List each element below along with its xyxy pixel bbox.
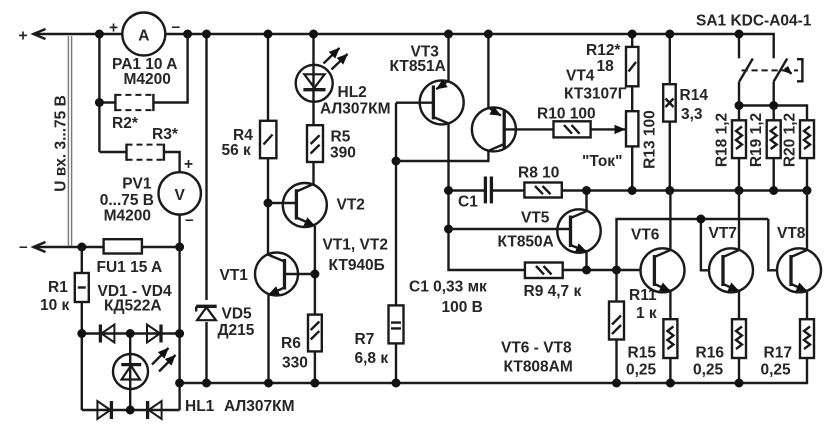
svg-text:"Ток": "Ток" [582,153,622,170]
junction: bus at R11 [612,379,621,388]
resistor R3* (dashed, optional multiplier) [127,144,164,161]
svg-text:+: + [184,156,193,173]
resistor R10 [554,121,591,137]
svg-text:HL2: HL2 [338,84,367,101]
svg-text:M4200: M4200 [104,208,151,225]
svg-text:R5: R5 [331,129,351,146]
svg-text:330: 330 [282,355,308,372]
wire: VT2 emitter down to R6 (VT1 base node) [314,226,316,315]
net: C1/R8 output sense line (y=190.5) [449,189,808,191]
svg-text:КТ940Б: КТ940Б [329,257,385,274]
diode VD1 (top-left, points left) [100,325,114,343]
wire: left column of bridge [81,302,83,410]
double line: input span mark [68,36,71,246]
junction: rail at SA1 pole 1 [735,30,744,39]
wire: R4 / VT1 column from rail [267,34,269,255]
svg-text:V: V [175,187,186,204]
wire: R14 column from rail [669,34,671,191]
wire: R7 column (VT3 base node down to bus) [395,103,397,383]
resistor R6 [308,315,322,352]
junction: bus at R15 [666,379,675,388]
junction: bus at VD5 [202,379,211,388]
junction: VT1 base / VT2 emitter [310,270,319,279]
svg-text:–: – [185,212,194,229]
junction: VT3 base / VT4 collector / R7 node [392,157,401,166]
wire: VT1 emitter to bus [267,295,269,383]
junction: VT5 collector on sense line [582,186,591,195]
voltmeter PV1 [159,156,201,229]
svg-text:АЛ307КМ: АЛ307КМ [320,101,391,118]
junction: bus at R16 [735,379,744,388]
wire: R2* right lead up to rail [153,34,187,103]
wire: HL2 / R5 column from rail [312,34,314,125]
junction: VT5 base tap [444,225,453,234]
resistor R18 [732,120,746,190]
resistor R8 [524,183,561,198]
wire: R6 to bus [314,351,316,383]
diode VD3 (bottom-left, points right) [97,401,111,419]
svg-text:КТ808АМ: КТ808АМ [504,359,573,376]
svg-text:100 В: 100 В [442,299,483,316]
svg-text:VD5: VD5 [222,306,253,323]
wire: VT4 emitter from rail [487,34,489,108]
svg-text:0...75 В: 0...75 В [100,192,154,209]
wire: bridge centre column through HL1 [129,334,131,411]
svg-text:R8 10: R8 10 [518,165,559,182]
resistor R11 [609,270,624,383]
svg-text:VT6 - VT8: VT6 - VT8 [501,340,572,357]
input terminal arrow (+) [34,29,46,39]
junction: C1 tap on VT3 collector column [444,186,453,195]
wire: lower input rail [33,246,180,248]
wire: VT5 collector up to sense line [585,191,587,212]
svg-text:VT2: VT2 [337,197,365,214]
svg-text:КТ3107Г: КТ3107Г [564,86,627,103]
switch SA1 (2 ganged poles) [739,34,802,106]
junction: R14 bottom / VT6 collector [665,186,674,195]
svg-text:R3*: R3* [152,126,179,143]
svg-text:PV1: PV1 [122,176,152,193]
svg-text:–: – [172,19,181,36]
svg-text:R16: R16 [696,345,725,362]
resistor R15 [663,291,677,383]
junction: rail at PA1+ branch [95,30,104,39]
resistor R14 [663,84,676,121]
resistor R7 [389,305,404,343]
junction: base node / R11 top [612,266,621,275]
svg-text:КТ850А: КТ850А [498,234,554,251]
diode VD4 (bottom-right, points left) [148,401,162,419]
svg-text:R20 1,2: R20 1,2 [782,113,799,167]
resistor R19 [767,120,781,190]
resistor R9 [525,263,563,279]
junction: rail at R14 [665,30,674,39]
svg-text:R1: R1 [48,279,68,296]
svg-text:18: 18 [597,58,615,75]
junction: R18 bottom / VT7 collector [735,186,744,195]
junction: R13 bottom on sense line [628,186,637,195]
wire: right column of bridge (lower rail down to bridge) [178,247,180,410]
transistor VT3 [396,80,464,124]
svg-text:+: + [109,20,118,37]
svg-text:R19 1,2: R19 1,2 [748,113,765,167]
wire: bridge bottom row [82,409,180,411]
wire: R12/R13 column from rail [631,34,633,191]
svg-text:6,8 к: 6,8 к [355,350,389,367]
diode VD2 (top-right, points right) [147,325,161,343]
svg-text:АЛ307КМ: АЛ307КМ [224,398,295,415]
wire: PV1 minus lead down to lower rail [178,215,180,247]
wire: R10 to R13 wiper with arrow [591,128,625,130]
wire: bridge top row [82,332,180,334]
wire: bottom bus (output minus) [180,358,807,383]
resistor R1 [75,247,89,302]
svg-text:VT7: VT7 [709,225,737,242]
junction: R20 bottom / VT8 collector [803,186,812,195]
wire: VT7 collector riser [738,191,740,251]
svg-text:R15: R15 [628,345,657,362]
net: driver output / VT6-VT8 base distribution [563,219,792,270]
resistor R17 [800,291,814,358]
svg-text:1 к: 1 к [636,305,657,322]
resistor R20 [800,120,814,190]
junction: rail at VD5 column [202,30,211,39]
svg-text:390: 390 [330,145,356,162]
junction: R2* right at rail [183,30,192,39]
wire: top positive rail [33,34,774,58]
junction: R1 top on lower rail [77,243,86,252]
wire: VT3 collector column down through C1 node to R9 row [449,124,525,271]
junction: VT7 base riser [696,215,705,224]
svg-text:VT8: VT8 [777,225,806,242]
resistor R16 [732,291,746,383]
svg-text:VT1: VT1 [220,267,249,284]
svg-text:SA1 KDC-A04-1: SA1 KDC-A04-1 [696,13,812,30]
svg-text:HL1: HL1 [185,398,215,415]
variable resistor R13 [626,111,638,146]
wire: VT4 collector to VT3 base node [396,151,488,161]
LED HL2 [296,48,348,102]
svg-text:VT5: VT5 [521,210,550,227]
wire: PA1 plus branch down (x=99.4) with taps to R2* and R3* [99,34,126,152]
transistor VT5 [449,209,601,252]
svg-text:0,25: 0,25 [693,362,724,379]
wire: VT6 collector riser [669,191,671,251]
resistor R2* (dashed, optional shunt) [115,94,153,111]
svg-text:C1: C1 [458,194,478,211]
svg-text:R2*: R2* [112,115,139,132]
transistor VT2 [268,183,327,227]
transistor VT1 [255,253,315,296]
input terminal arrow (-) [34,242,46,252]
wire: R3* right lead down to PV1 [164,152,180,172]
junction: SA1 pole1 / R18 [735,101,744,110]
svg-text:R10 100: R10 100 [537,106,596,123]
junction: bridge top-centre [126,329,135,338]
svg-text:3,3: 3,3 [681,106,703,123]
fuse FU1 [104,239,142,253]
svg-text:R13 100: R13 100 [642,110,659,169]
svg-text:R14: R14 [680,87,709,104]
svg-text:U вх. 3...75 В: U вх. 3...75 В [53,95,70,192]
junction: bus at bridge column [175,379,184,388]
capacitor C1 [485,177,491,204]
LED HL1 [113,348,176,389]
svg-text:R12*: R12* [586,42,621,59]
svg-text:R9 4,7 к: R9 4,7 к [524,283,582,300]
junction: bridge top-left [77,329,86,338]
svg-text:VT4: VT4 [566,68,595,85]
junction: PV1/lower-rail/right column [175,243,184,252]
svg-text:0,25: 0,25 [761,362,792,379]
svg-text:A: A [138,28,149,45]
resistor R12* [626,47,638,86]
wire: R5 to VT2 collector [312,162,314,184]
svg-text:VT6: VT6 [631,227,660,244]
transistor VT4 [472,107,554,151]
svg-text:КТ851А: КТ851А [390,58,446,75]
svg-text:R18 1,2: R18 1,2 [714,113,731,167]
junction: bus at R7 [392,379,401,388]
svg-text:+: + [19,28,28,45]
junction: R19 bottom on sense line [769,186,778,195]
wire: VT8 collector riser [806,191,808,251]
junction: rail at HL2 column [309,30,318,39]
transistor VT7 [709,248,753,292]
junction: bridge top-right [175,329,184,338]
svg-text:0,25: 0,25 [626,362,657,379]
junction: rail at VT4 [484,30,493,39]
svg-text:56 к: 56 к [222,142,252,159]
svg-text:VT1, VT2: VT1, VT2 [323,237,388,254]
svg-text:R17: R17 [764,345,792,362]
wire: VT3 emitter from rail [447,34,449,82]
svg-text:M4200: M4200 [124,71,171,88]
junction: bus at VT1 emitter [264,379,273,388]
junction: bus at R6 [310,379,319,388]
ammeter PA1 [109,13,181,56]
junction: VT2 base tap on R4 column [264,199,273,208]
svg-text:С1 0,33 мк: С1 0,33 мк [409,279,487,296]
junction: SA1 pole2 / R19 [769,101,778,110]
junction: bridge bottom-centre [126,406,135,415]
svg-text:FU1 15 A: FU1 15 A [97,259,163,276]
transistor VT8 [777,248,821,292]
junction: rail at R12 [628,30,637,39]
junction: R2* left tap [95,98,104,107]
resistor R5 [307,125,323,162]
wire: main vertical VD5 column (x=206.5) [205,34,207,383]
svg-text:–: – [19,239,28,256]
transistor VT6 [641,248,685,292]
wire: VT5 emitter down to base node [585,252,587,270]
zener VD5 [195,300,219,322]
svg-text:R6: R6 [281,335,301,352]
junction: R9 right / VT5 emitter [582,266,591,275]
svg-text:10 к: 10 к [40,297,70,314]
resistor R4 [260,121,276,158]
junction: rail at R4 column [264,30,273,39]
svg-text:R7: R7 [355,331,375,348]
svg-text:Д215: Д215 [218,322,255,339]
svg-text:КД522А: КД522А [104,298,162,315]
wire: SA1 output bus to R18 R19 R20 tops [739,106,807,121]
junction: rail at VT3 [444,30,453,39]
